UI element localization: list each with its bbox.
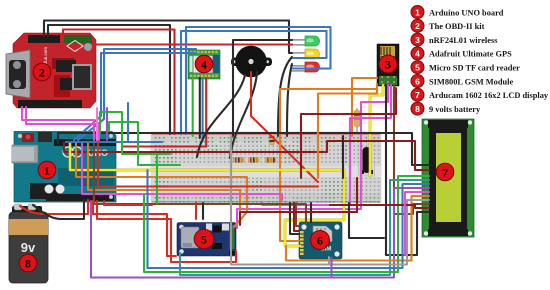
wire orange row 2 to SD bbox=[88, 143, 240, 219]
wire black battery to Arduino bbox=[33, 200, 84, 219]
OBD-II kit U2 bbox=[6, 33, 96, 108]
resistor R2 bbox=[248, 158, 259, 163]
wire brown row Arduino bbox=[94, 143, 306, 222]
wire black right of SIM bbox=[349, 203, 384, 238]
wire red Arduino to SD wrap bbox=[97, 201, 236, 262]
wire green GPS to breadboard bbox=[192, 77, 194, 136]
svg-text:Micro SD TF card reader: Micro SD TF card reader bbox=[429, 64, 520, 73]
legend item 6 SIM800L GSM Module bbox=[411, 75, 514, 88]
battery BT1 bbox=[9, 204, 48, 283]
svg-text:9v: 9v bbox=[21, 240, 36, 255]
wire gray breadboard to SIM bbox=[231, 136, 429, 265]
wire orange long to SIM bbox=[76, 143, 247, 227]
LED D3 red bbox=[290, 62, 320, 72]
wire green staple Arduino bbox=[100, 112, 170, 154]
resistor R3 bbox=[265, 158, 276, 163]
svg-text:nRF24L01 wireless: nRF24L01 wireless bbox=[429, 36, 498, 45]
wire black long top to LCD bbox=[58, 133, 429, 165]
wire yellow long to SIM bbox=[70, 143, 344, 246]
label 4 bbox=[195, 55, 213, 73]
svg-text:5: 5 bbox=[415, 63, 420, 73]
wire black SD top vertical bbox=[202, 203, 204, 219]
wire red GPS to breadboard bbox=[122, 78, 206, 147]
svg-text:1: 1 bbox=[44, 164, 50, 178]
wire maroon long to LCD bbox=[64, 141, 429, 170]
wire red buzzer diagonal bbox=[251, 72, 318, 182]
svg-text:8: 8 bbox=[415, 104, 420, 114]
svg-text:6: 6 bbox=[317, 234, 323, 248]
svg-text:Arduino UNO board: Arduino UNO board bbox=[429, 8, 504, 17]
legend item 7 Arducam 1602 LCD display bbox=[411, 88, 549, 101]
legend item 5 Micro SD TF card reader bbox=[411, 61, 520, 74]
wire black buzzer lead 1 bbox=[197, 75, 245, 157]
legend item 8 9 volts battery bbox=[411, 102, 481, 115]
wire black breadboard to SIM bbox=[290, 203, 299, 234]
svg-text:Arducam 1602 16x2 LCD display: Arducam 1602 16x2 LCD display bbox=[429, 91, 549, 100]
wire magenta right to LCD bbox=[405, 192, 429, 255]
svg-text:2: 2 bbox=[39, 66, 45, 80]
wire purple stub SIM right bbox=[330, 258, 332, 278]
resistor R1 bbox=[233, 158, 244, 163]
Arduino UNO U1 bbox=[12, 132, 116, 203]
GPS U4 bbox=[188, 50, 220, 79]
buzzer LS1 bbox=[231, 46, 272, 78]
wire magenta OBD to Arduino 1 bbox=[22, 107, 94, 140]
wire blue breadboard to LED loop outer bbox=[186, 27, 331, 134]
wire magenta OBD to Arduino 2 bbox=[26, 107, 99, 140]
svg-text:8: 8 bbox=[25, 257, 31, 271]
wire brown nRF to LCD bbox=[394, 85, 429, 214]
wire pink OBD to Arduino bbox=[96, 108, 98, 140]
svg-text:5: 5 bbox=[201, 233, 207, 247]
micro SD reader U5 bbox=[177, 223, 236, 257]
wire red SD top vertical bbox=[195, 203, 197, 219]
svg-text:4: 4 bbox=[201, 58, 207, 72]
svg-text:3: 3 bbox=[385, 58, 391, 72]
wire black OBD top to breadboard bbox=[48, 25, 170, 134]
wire red Arduino to breadboard rail bbox=[104, 201, 152, 205]
svg-text:6: 6 bbox=[415, 76, 420, 86]
wire black GPS to breadboard bbox=[199, 78, 201, 138]
potentiometer RV1 bbox=[359, 147, 375, 176]
wire green bottom to LCD bbox=[144, 176, 429, 272]
wire black buzzer lead 2 bbox=[230, 72, 257, 158]
wire magenta nRF 1 bbox=[237, 85, 388, 228]
wire black green LED to left of buzzer bbox=[233, 40, 292, 136]
svg-text:7: 7 bbox=[442, 166, 448, 180]
wire red battery to Arduino bbox=[20, 200, 88, 214]
wire teal Arduino to bottom to LCD bbox=[180, 180, 429, 275]
wire red row to diagonal bbox=[98, 143, 318, 187]
wire maroon right of SIM bbox=[240, 178, 357, 225]
resistor R4 vertical bbox=[354, 108, 360, 133]
wire blue Arduino to GPS 2 bbox=[78, 49, 196, 140]
svg-text:7: 7 bbox=[415, 90, 420, 100]
wire magenta nRF 2 bbox=[262, 85, 391, 205]
wire green breadboard vertical bbox=[156, 154, 158, 203]
wire maroon to SIM bbox=[294, 203, 299, 231]
nRF24L01 U3 bbox=[377, 44, 399, 86]
wire green 2 Arduino to breadboard bbox=[109, 122, 180, 165]
wire black nRF to LCD bbox=[386, 85, 429, 255]
wire maroon nRF area down bbox=[301, 88, 396, 178]
LED D1 green bbox=[290, 36, 320, 46]
wire black yellow LED lower to breadboard bbox=[278, 57, 292, 136]
label 5 bbox=[194, 229, 214, 249]
svg-text:SIM800L GSM Module: SIM800L GSM Module bbox=[429, 77, 514, 86]
svg-text:1: 1 bbox=[415, 7, 420, 17]
label 3 bbox=[379, 55, 397, 73]
wire gray stub to SIM right bbox=[328, 257, 330, 265]
wire black red LED down to breadboard bbox=[287, 64, 292, 136]
legend item 3 nRF24L01 wireless bbox=[411, 33, 498, 46]
wire blue GPS to breadboard bbox=[202, 78, 204, 140]
legend item 4 Adafruit Ultimate GPS bbox=[411, 47, 512, 60]
svg-text:4: 4 bbox=[415, 49, 420, 59]
wire blue Arduino to GPS 1 bbox=[74, 53, 196, 140]
wire magenta long row bbox=[82, 143, 282, 200]
svg-text:Adafruit Ultimate GPS: Adafruit Ultimate GPS bbox=[429, 50, 512, 59]
wire blue breadboard to LED loop inner bbox=[181, 31, 327, 134]
wire black down to SIM top bbox=[310, 203, 312, 222]
svg-text:2: 2 bbox=[415, 21, 420, 31]
wire blue short into breadboard bbox=[128, 141, 162, 143]
wire red OBD top to breadboard bbox=[63, 30, 175, 135]
wire black breadboard vertical right bbox=[342, 136, 344, 178]
LCD 16x2 U7 bbox=[422, 119, 474, 237]
wire red Arduino to SD bbox=[93, 201, 176, 256]
svg-text:9 volts battery: 9 volts battery bbox=[429, 105, 481, 114]
resistor R5 vertical small bbox=[270, 133, 275, 145]
legend item 1 Arduino UNO board bbox=[411, 6, 504, 19]
wire yellow nRF down bbox=[370, 85, 383, 176]
wire purple OBD to Arduino bbox=[106, 108, 108, 140]
legend item 2 The OBD-II kit bbox=[411, 19, 485, 32]
label 8 bbox=[19, 254, 37, 272]
wire blue ICSP to OBD bbox=[66, 103, 128, 142]
label 2 bbox=[33, 63, 51, 81]
wire orange nRF third bbox=[318, 88, 377, 178]
wire black OBD top to yellow LED bbox=[44, 21, 292, 54]
svg-text:The OBD-II kit: The OBD-II kit bbox=[429, 22, 485, 31]
label 1 bbox=[38, 161, 56, 179]
SIM800L U6 bbox=[299, 222, 342, 259]
LED D2 yellow bbox=[290, 49, 320, 59]
label 6 bbox=[311, 231, 330, 250]
wire purple Arduino to bottom to LCD bbox=[91, 188, 429, 278]
wire red OBD to green LED bbox=[93, 43, 292, 45]
svg-text:3: 3 bbox=[415, 35, 420, 45]
label 7 bbox=[436, 163, 454, 181]
wire orange bottom to LCD bbox=[286, 196, 429, 261]
wire blue bottom to LCD bbox=[148, 170, 430, 268]
wire orange nRF pin 2 bbox=[280, 84, 377, 241]
wire orange nRF pin 1 bbox=[352, 78, 377, 136]
wire brown to SIM area bbox=[296, 203, 299, 226]
breadboard bbox=[151, 132, 381, 204]
wire maroon bottom right to LCD bbox=[330, 205, 429, 208]
